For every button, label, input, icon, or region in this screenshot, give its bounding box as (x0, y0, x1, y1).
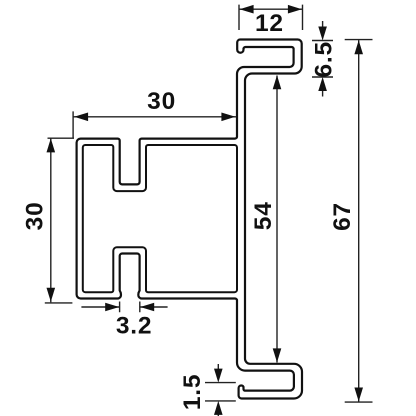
dimension 67 ticks (345, 40, 373, 403)
dimension 3.2 arrows (105, 303, 119, 312)
dimension 12 line (239, 8, 303, 10)
svg-text:30: 30 (22, 201, 49, 230)
svg-text:67: 67 (329, 202, 356, 231)
dimension 6.5 arrows (322, 21, 324, 97)
dimension 30 horizontal: extension lines (48, 111, 75, 138)
dimension 12 arrows (240, 5, 254, 14)
dimension 30 vertical arrows (47, 138, 56, 152)
svg-text:1.5: 1.5 (179, 374, 206, 410)
profile inner cavity (H shape) (83, 145, 237, 292)
svg-text:3.2: 3.2 (116, 313, 152, 340)
svg-text:30: 30 (147, 88, 176, 115)
dimension 67 line (358, 40, 360, 402)
svg-text:12: 12 (255, 10, 284, 37)
dimension 30 horizontal arrows (74, 113, 88, 122)
dimension 1.5 arrows (217, 364, 219, 416)
dimension 3.2 lines (81, 306, 167, 308)
dimension 1.5 ticks (205, 383, 236, 401)
profile outer contour (77, 40, 302, 399)
dimension 12 extension lines (239, 5, 303, 30)
dimension 6.5 ticks (312, 41, 333, 78)
dimension 30 horizontal line (74, 116, 237, 118)
dimension 54 line (276, 76, 278, 363)
dimension 3.2 extension lines (120, 302, 140, 313)
dimension 30 vertical line (50, 138, 52, 303)
svg-text:54: 54 (250, 201, 277, 230)
dimension 30 vertical: extension line bottom (45, 302, 73, 304)
svg-text:6.5: 6.5 (311, 41, 338, 77)
dimension 54 arrows (273, 75, 282, 89)
dimension 67 arrows (354, 40, 363, 54)
